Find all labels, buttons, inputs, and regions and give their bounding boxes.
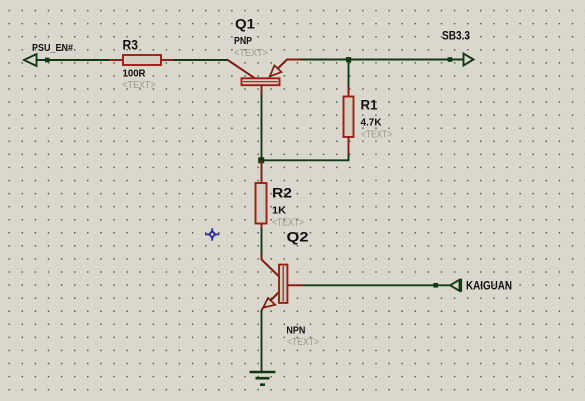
svg-text:Q1: Q1 — [235, 17, 256, 32]
svg-text:KAIGUAN: KAIGUAN — [466, 278, 512, 292]
Q1 emitter diagonal — [270, 60, 302, 77]
node at PSU_EN# terminal — [45, 58, 50, 63]
transistor Q1 — [227, 60, 301, 94]
wire R3 to Q1 — [174, 59, 228, 61]
svg-text:4.7K: 4.7K — [361, 116, 382, 128]
resistor R1 — [344, 87, 354, 154]
svg-text:<TEXT>: <TEXT> — [272, 216, 304, 228]
svg-text:<TEXT>: <TEXT> — [123, 79, 156, 91]
transistor Q2 — [262, 254, 304, 311]
wire Q2 base to KAIGUAN — [303, 284, 450, 286]
node base junction — [258, 157, 264, 163]
svg-text:R1: R1 — [361, 98, 378, 113]
wire Q2 emitter to ground — [261, 310, 263, 371]
wire R1 bottom to junction — [262, 154, 349, 160]
svg-text:PSU_EN#: PSU_EN# — [32, 43, 73, 54]
Q2 emitter arrow — [263, 298, 275, 308]
svg-text:PNP: PNP — [234, 35, 252, 47]
Q1 base pin — [261, 85, 263, 93]
wire PSU_EN# to R3 — [37, 59, 111, 61]
node at KAIGUAN terminal — [433, 283, 438, 288]
Q1 collector diagonal — [227, 60, 256, 80]
wire Q1 emitter to SB3.3 — [301, 59, 464, 61]
svg-text:SB3.3: SB3.3 — [442, 28, 470, 42]
resistor R3 — [110, 55, 174, 65]
svg-text:R2: R2 — [272, 186, 292, 201]
Q2 emitter diagonal — [262, 293, 279, 311]
terminal PSU_EN# — [24, 54, 37, 66]
node R1 top junction — [346, 57, 351, 62]
Q2 base bar — [279, 265, 287, 303]
wire SB3.3 rail to R1 — [348, 60, 350, 88]
svg-text:1K: 1K — [272, 204, 286, 216]
svg-text:R3: R3 — [123, 37, 139, 52]
wire R2 to Q2 — [261, 228, 263, 254]
Q1 base bar — [242, 78, 280, 85]
origin marker — [205, 228, 219, 240]
svg-text:<TEXT>: <TEXT> — [287, 336, 319, 348]
Q2 collector pin — [262, 254, 279, 277]
Q1 emitter arrow — [270, 65, 282, 76]
wire Q1 base down — [261, 94, 263, 161]
terminal KAIGUAN — [450, 279, 461, 292]
Q2 base pin — [287, 284, 303, 286]
svg-text:100R: 100R — [123, 68, 146, 80]
resistor R2 — [256, 160, 267, 228]
svg-text:NPN: NPN — [286, 324, 305, 336]
ground — [250, 372, 276, 385]
node at SB3.3 terminal — [448, 57, 453, 62]
terminal SB3.3 — [464, 54, 474, 66]
svg-text:<TEXT>: <TEXT> — [361, 129, 392, 141]
svg-text:<TEXT>: <TEXT> — [234, 47, 268, 59]
svg-text:Q2: Q2 — [287, 230, 309, 245]
